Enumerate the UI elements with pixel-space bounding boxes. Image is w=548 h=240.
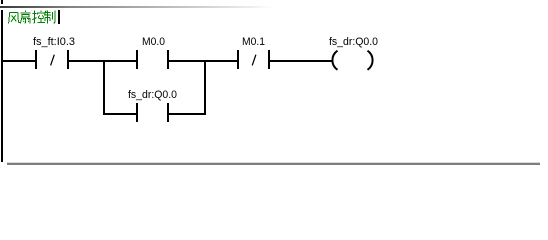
text cursor after title bbox=[58, 10, 60, 24]
NO contact fs_dr:Q0.0 (seal-in branch) bbox=[128, 89, 177, 122]
svg-text:M0.1: M0.1 bbox=[242, 36, 265, 48]
NO contact M0.0 bbox=[136, 36, 169, 69]
network separator line (top, fading right) bbox=[0, 6, 282, 8]
wire: rail to contact 1 bbox=[3, 60, 35, 62]
制 bbox=[44, 10, 55, 23]
wire: contact 1 to contact M0.0 (through left branch junction) bbox=[69, 60, 136, 62]
wire: M0.0 to M0.1 (through right branch junction) bbox=[169, 60, 237, 62]
branch left vertical wire bbox=[103, 60, 105, 115]
bottom network separator bbox=[7, 162, 540, 163]
left power rail bbox=[1, 10, 3, 162]
wire: M0.1 to coil bbox=[270, 60, 333, 62]
svg-text:M0.0: M0.0 bbox=[142, 36, 165, 48]
network title 风扇控制 (green, drawn as paths) bbox=[9, 10, 55, 23]
NC contact fs_ft:I0.3 bbox=[33, 36, 75, 69]
output coil fs_dr:Q0.0 bbox=[329, 36, 378, 70]
svg-text:fs_ft:I0.3: fs_ft:I0.3 bbox=[33, 36, 75, 48]
控 bbox=[32, 10, 45, 23]
svg-text:fs_dr:Q0.0: fs_dr:Q0.0 bbox=[128, 89, 177, 101]
branch wire: lower contact to right vertical bbox=[169, 113, 206, 115]
扇 bbox=[20, 10, 30, 23]
branch wire: left vertical to lower contact bbox=[103, 113, 136, 115]
branch right vertical wire bbox=[204, 60, 206, 115]
svg-text:fs_dr:Q0.0: fs_dr:Q0.0 bbox=[329, 36, 378, 48]
previous network rail stub (top-left tick) bbox=[1, 0, 3, 4]
风 bbox=[9, 13, 20, 24]
NC contact M0.1 bbox=[237, 36, 270, 69]
